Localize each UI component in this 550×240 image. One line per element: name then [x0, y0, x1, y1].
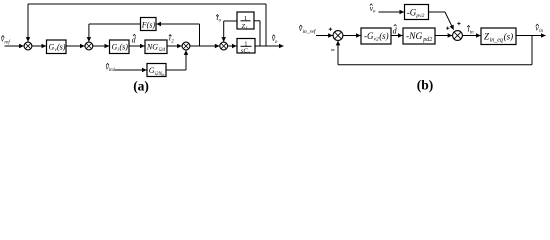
svg-text:i2d: i2d [159, 48, 166, 53]
block Gi2Nin [147, 64, 166, 77]
svg-text:2: 2 [171, 40, 174, 45]
wire Gi to NG block [129, 45, 145, 47]
wire feedback bottom [338, 64, 532, 66]
label vo hat (b) [370, 4, 376, 15]
wire vo to 1/ZL input [259, 21, 261, 46]
wire top feedback horizontal [28, 3, 266, 5]
summing junction S3 [182, 42, 190, 50]
svg-text:(s): (s) [57, 43, 66, 52]
block 1/ZL [237, 12, 254, 31]
svg-text:d: d [132, 36, 137, 45]
label (a) [133, 79, 149, 94]
hat of v_ref [2, 36, 5, 38]
wire F(s) output down into S2 [88, 24, 90, 42]
wire vin_ref to S1b [316, 35, 333, 37]
wire Zin_eq to vin output [516, 35, 546, 37]
summing junction S1b [333, 31, 343, 41]
wire S2 to Gi [93, 45, 109, 47]
svg-text:in1: in1 [109, 68, 115, 73]
wire v_ref to S1 [5, 45, 24, 47]
svg-text:o: o [373, 10, 376, 15]
wire Gpv2 diagonal into S2b [445, 12, 454, 30]
block -Gpv2 [405, 5, 429, 20]
plus sign left of S2b [446, 27, 449, 30]
label iin hat [467, 25, 474, 36]
wire feedback up into S1b [337, 41, 339, 65]
svg-text:NG: NG [146, 43, 158, 52]
svg-text:in: in [470, 30, 474, 35]
plus sign at S1b [329, 28, 332, 31]
summing junction S1 [24, 42, 32, 50]
svg-text:F(s): F(s) [141, 20, 156, 29]
wire tap to F(s) input [157, 23, 200, 25]
wire io horizontal from 1/ZL [224, 20, 237, 22]
block NGi2d [145, 40, 167, 54]
wire 1/sCo to vo output [255, 45, 284, 47]
svg-text:(b): (b) [417, 78, 434, 93]
label d hat (b) [393, 26, 398, 35]
hat of vin1 [106, 63, 109, 65]
svg-text:(a): (a) [133, 79, 149, 94]
svg-text:-G: -G [407, 8, 417, 18]
wire S2b to Zin_eq [462, 35, 480, 37]
hat of vo (b) [370, 4, 373, 6]
wire NGpd2 to S2b [435, 35, 452, 37]
wire feedback down right [531, 36, 533, 65]
hat of vo [272, 35, 275, 37]
hat of io [216, 15, 219, 17]
wire Gv to S2 [66, 45, 85, 47]
wire S1 to Gv [32, 45, 46, 47]
label (b) [417, 78, 434, 93]
label v_ref [1, 35, 11, 46]
svg-text:in: in [539, 29, 543, 34]
hat of iin [467, 25, 470, 27]
hat of d (b) [394, 25, 397, 27]
wire S4 to 1/sCo [228, 45, 237, 47]
summing junction S2 [85, 42, 93, 50]
wire vin1 to Gi2Nin [115, 69, 147, 71]
wire feedback top into S1 [27, 4, 29, 42]
label vin_ref [299, 24, 317, 35]
hat of i2 [169, 35, 172, 37]
block Zin_eq(s) [481, 28, 516, 45]
block -NGpd2 [403, 28, 435, 44]
block Gv(s) [47, 40, 67, 54]
svg-text:pd2: pd2 [422, 37, 432, 43]
svg-text:(s): (s) [504, 31, 513, 41]
block -Gv2(s) [361, 28, 391, 44]
wire Gpv2 output horizontal [429, 11, 446, 13]
svg-text:o: o [219, 19, 222, 24]
plus sign above S2b [457, 22, 460, 25]
wire F(s) output horizontal [89, 23, 141, 25]
minus sign at S1b bottom [331, 49, 335, 51]
wire NG to S3 [167, 45, 182, 47]
wire Gv2 to NGpd2 [391, 35, 403, 37]
svg-text:L: L [245, 26, 249, 31]
wire top feedback right vertical [265, 4, 267, 46]
label i2 hat [169, 34, 175, 45]
svg-text:ref: ref [4, 40, 10, 45]
label io hat [216, 13, 221, 24]
svg-text:-G: -G [364, 31, 374, 41]
svg-text:o: o [275, 40, 278, 45]
label vin1 [106, 62, 116, 73]
wire Gi2Nin up into S3 [166, 69, 186, 71]
svg-text:(s): (s) [379, 31, 389, 41]
svg-text:pv2: pv2 [415, 13, 424, 19]
hat of vin_ref [299, 25, 302, 27]
wire tap vertical [199, 24, 201, 46]
wire S3 to S4 [190, 45, 219, 47]
hat of d [133, 34, 136, 36]
svg-text:d: d [393, 26, 398, 35]
wire vo to Gpv2 [379, 11, 405, 13]
block 1/sCo [237, 39, 255, 55]
block F(s) [141, 18, 157, 31]
svg-text:-NG: -NG [406, 32, 423, 42]
svg-text:in_eq: in_eq [490, 37, 503, 43]
label vin hat [535, 23, 543, 34]
label d hat [132, 36, 137, 45]
label vo hat [272, 34, 278, 45]
svg-text:(s): (s) [120, 43, 129, 52]
wire io down into S4 [223, 21, 225, 42]
wire S1b to Gv2 [343, 35, 361, 37]
svg-text:in: in [161, 73, 164, 77]
hat of vin [536, 24, 539, 26]
summing junction S2b [453, 31, 463, 41]
summing junction S4 [220, 42, 228, 50]
svg-text:o: o [248, 50, 251, 55]
block Gi(s) [110, 40, 130, 54]
svg-text:in_ref: in_ref [303, 28, 317, 35]
